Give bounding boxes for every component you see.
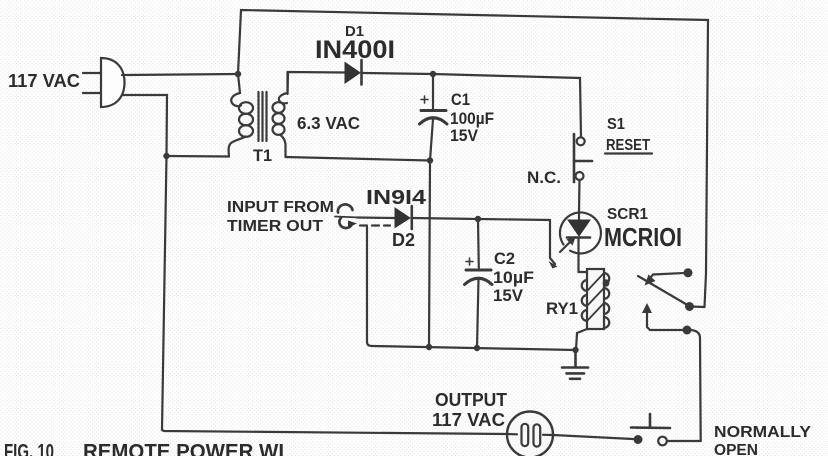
svg-text:10µF: 10µF xyxy=(493,268,534,287)
svg-text:15V: 15V xyxy=(450,126,479,145)
svg-text:S1: S1 xyxy=(607,116,625,133)
wire S1 bottom to SCR anode xyxy=(578,180,581,211)
svg-text:NORMALLY: NORMALLY xyxy=(714,424,811,441)
svg-text:OUTPUT: OUTPUT xyxy=(435,390,507,410)
svg-text:MCRIOI: MCRIOI xyxy=(604,222,682,252)
svg-text:REMOTE POWER WI: REMOTE POWER WI xyxy=(83,441,284,456)
node junction at T1 primary top xyxy=(235,71,241,77)
capacitor C1 xyxy=(420,74,448,161)
node C2 top junction xyxy=(475,216,481,222)
capacitor C2 xyxy=(465,219,493,348)
wire left leg down to bottom rail xyxy=(162,156,167,430)
node ground rail / C1 return junction xyxy=(426,344,432,350)
wire C1 bottom down to ground rail (crosses D2 row) xyxy=(429,161,430,348)
node ground rail / C2 return junction xyxy=(474,345,480,351)
switch S1 (N.C. pushbutton RESET) xyxy=(574,134,592,182)
svg-text:C2: C2 xyxy=(494,249,515,268)
svg-text:C1: C1 xyxy=(451,90,470,109)
relay coil RY1 xyxy=(576,269,609,350)
node junction lower-left xyxy=(163,153,169,159)
relay contact A (upper, with fixed contact and armature) xyxy=(638,268,705,311)
dashed return from connector xyxy=(360,224,390,226)
svg-text:D2: D2 xyxy=(392,230,415,250)
wire bottom rail to output receptacle xyxy=(162,430,507,434)
switch N.O. (momentary pushbutton) xyxy=(631,414,701,445)
SCR1 (MCR101) xyxy=(560,211,601,272)
svg-text:TIMER OUT: TIMER OUT xyxy=(227,218,323,235)
wire secondary top to D1 xyxy=(288,72,346,94)
wire D2 cathode to C2 node and SCR gate xyxy=(413,218,478,219)
svg-text:T1: T1 xyxy=(253,146,272,165)
svg-text:N.C.: N.C. xyxy=(527,168,561,187)
wire receptacle to N.O. switch xyxy=(553,435,633,439)
wire C2 node to SCR gate bend xyxy=(478,219,550,220)
svg-text:6.3 VAC: 6.3 VAC xyxy=(297,113,360,133)
svg-text:RY1: RY1 xyxy=(546,299,578,318)
diode D2 xyxy=(395,206,412,229)
wire plug bottom, right then down to junction xyxy=(122,95,167,156)
input connector (timer) xyxy=(335,204,360,228)
svg-text:117 VAC: 117 VAC xyxy=(8,71,80,91)
node ground rail / relay return junction xyxy=(572,347,578,353)
ground rail (middle section) xyxy=(367,342,575,350)
svg-text:RESET: RESET xyxy=(606,137,650,154)
svg-text:117 VAC: 117 VAC xyxy=(432,410,505,430)
svg-text:FIG. 10: FIG. 10 xyxy=(4,441,54,456)
svg-text:INPUT FROM: INPUT FROM xyxy=(227,199,334,216)
wire junction to T1 primary bottom xyxy=(167,155,230,158)
ground symbol xyxy=(562,350,588,379)
wire plug top to T1 primary top junction xyxy=(122,74,238,75)
svg-text:15V: 15V xyxy=(493,286,524,305)
diode D1 xyxy=(345,60,362,85)
node C1 bottom junction xyxy=(427,157,433,163)
svg-text:OPEN: OPEN xyxy=(714,442,758,456)
node C1 top xyxy=(430,71,436,77)
wire dashed node down to ground rail xyxy=(366,227,368,342)
AC plug P1 (117 VAC wall plug) xyxy=(83,58,125,107)
relay contact B (lower, to N.O. rail) xyxy=(642,303,701,441)
svg-text:IN400I: IN400I xyxy=(315,36,395,64)
transformer T1 xyxy=(229,72,288,157)
svg-text:IN9I4: IN9I4 xyxy=(366,187,427,209)
SCR gate wire with arrow from D2 row xyxy=(549,220,577,269)
wire connector to D2 xyxy=(357,216,395,219)
wire top rail xyxy=(238,10,708,307)
wire C1 node to S1 top xyxy=(433,74,581,137)
wire D1 cathode to C1 top node xyxy=(363,73,433,74)
output receptacle SO1 xyxy=(507,412,553,456)
svg-text:SCR1: SCR1 xyxy=(607,206,648,223)
wire 6.3VAC secondary bottom to C1 ground column xyxy=(286,157,431,161)
